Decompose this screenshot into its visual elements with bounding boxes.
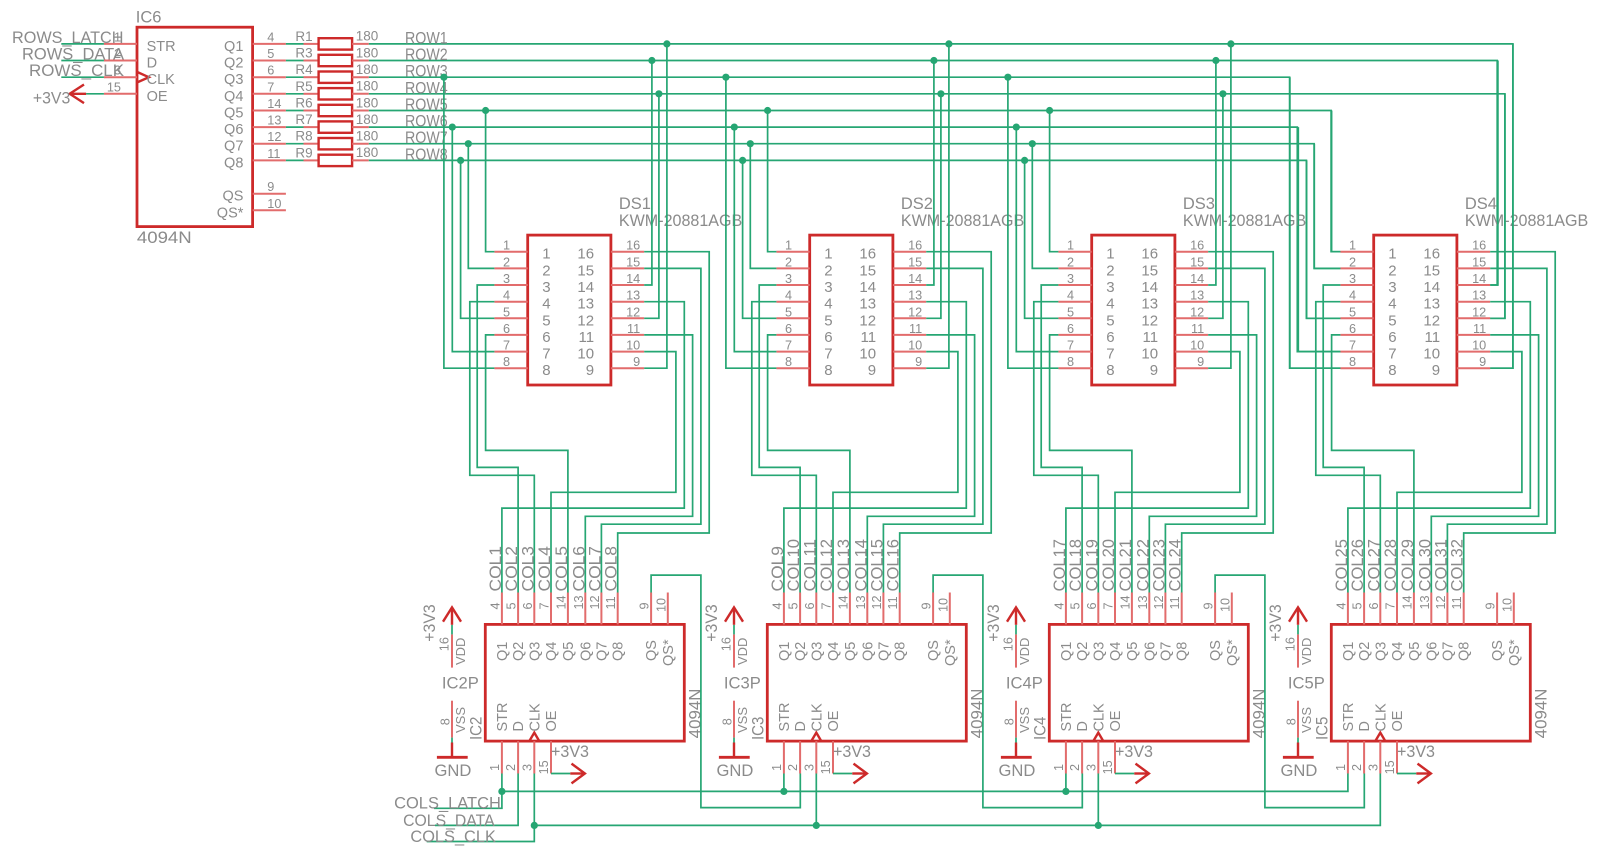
svg-text:8: 8 (1002, 718, 1016, 725)
svg-text:12: 12 (1434, 595, 1448, 609)
wire ROW8 to DS3 pin 5 (1021, 157, 1058, 319)
IC3 top pins Q1-Q8 QS QS* (770, 593, 950, 625)
svg-text:15: 15 (859, 262, 876, 279)
svg-text:+3V3: +3V3 (33, 90, 70, 108)
svg-text:14: 14 (267, 97, 281, 111)
svg-text:5: 5 (542, 312, 550, 329)
wire DS1 pin 15 to COL7 (601, 268, 701, 592)
wire ROW5 to DS2 pin 1 (764, 107, 776, 252)
IC3 bottom pins STR D CLK OE (1,2,3,15) (770, 741, 833, 774)
svg-text:13: 13 (859, 296, 876, 313)
svg-text:Q4: Q4 (826, 642, 842, 661)
svg-text:COL28: COL28 (1382, 539, 1400, 592)
svg-text:+3V3: +3V3 (1397, 743, 1435, 761)
svg-text:7: 7 (542, 346, 550, 363)
svg-text:7: 7 (1106, 346, 1114, 363)
svg-text:COL5: COL5 (553, 546, 571, 592)
svg-text:Q3: Q3 (1373, 642, 1389, 661)
IC5 bottom pins STR D CLK OE (1,2,3,15) (1334, 741, 1397, 774)
svg-text:OE: OE (1390, 710, 1406, 731)
svg-text:2: 2 (1388, 262, 1396, 279)
svg-text:180: 180 (356, 45, 379, 60)
svg-text:10: 10 (1423, 346, 1440, 363)
svg-text:IC2P: IC2P (442, 675, 479, 693)
wire IC4 QS to IC5 D (shift chain) (1215, 575, 1364, 808)
svg-text:VSS: VSS (1299, 707, 1314, 733)
svg-text:Q2: Q2 (1357, 642, 1373, 661)
svg-text:9: 9 (1484, 602, 1498, 609)
svg-text:Q6: Q6 (860, 642, 876, 661)
svg-text:KWM-20881AGB: KWM-20881AGB (1183, 212, 1306, 230)
svg-text:4: 4 (267, 30, 274, 44)
wire ROW1 to DS1 pin 9 (644, 40, 670, 368)
svg-text:5: 5 (267, 47, 274, 61)
svg-text:D: D (1075, 721, 1091, 731)
svg-text:16: 16 (1141, 246, 1158, 263)
svg-text:DS4: DS4 (1465, 195, 1497, 213)
svg-text:180: 180 (356, 112, 379, 127)
svg-text:8: 8 (1388, 362, 1396, 379)
svg-text:4: 4 (785, 289, 792, 303)
wire DS2 pin 3 to COL10 (759, 285, 800, 593)
svg-text:Q6: Q6 (224, 122, 243, 138)
svg-text:Q5: Q5 (843, 642, 859, 661)
svg-text:R7: R7 (295, 112, 312, 127)
svg-text:16: 16 (859, 246, 876, 263)
wire DS3 pin 16 to COL24 (1182, 252, 1274, 593)
svg-text:5: 5 (1388, 312, 1396, 329)
svg-text:2: 2 (504, 764, 518, 771)
svg-text:13: 13 (1423, 296, 1440, 313)
svg-text:COLS_LATCH: COLS_LATCH (394, 795, 501, 813)
svg-text:10: 10 (267, 197, 281, 211)
wire ROW2 to DS3 pin 14 (1208, 57, 1219, 285)
svg-text:9: 9 (920, 602, 934, 609)
svg-text:12: 12 (1472, 305, 1486, 319)
svg-text:13: 13 (267, 114, 281, 128)
svg-text:2: 2 (542, 262, 550, 279)
wire ROW4 to DS3 pin 12 (1208, 90, 1226, 318)
wire IC2 QS to IC3 D (shift chain) (651, 575, 800, 808)
svg-text:3: 3 (785, 272, 792, 286)
svg-text:14: 14 (908, 272, 922, 286)
svg-text:1: 1 (488, 764, 502, 771)
svg-text:13: 13 (577, 296, 594, 313)
svg-text:9: 9 (1432, 362, 1440, 379)
svg-text:10: 10 (1472, 339, 1486, 353)
svg-text:GND: GND (435, 762, 472, 780)
wire ROW7 to DS4 pin 2 (1314, 144, 1340, 269)
svg-text:CLK: CLK (1373, 703, 1389, 732)
svg-text:QS: QS (644, 640, 660, 661)
power +3V3 VDD pin 16 of IC2 (421, 604, 479, 692)
svg-text:10: 10 (1141, 346, 1158, 363)
svg-text:IC3: IC3 (749, 717, 767, 740)
svg-text:11: 11 (1168, 596, 1182, 609)
svg-text:12: 12 (870, 595, 884, 609)
svg-text:11: 11 (579, 329, 595, 346)
svg-text:16: 16 (577, 246, 594, 263)
svg-text:16: 16 (1423, 246, 1440, 263)
svg-text:VDD: VDD (735, 638, 750, 665)
svg-text:12: 12 (908, 305, 922, 319)
wire DS4 pin 11 to COL30 (1431, 335, 1538, 593)
svg-text:14: 14 (554, 595, 568, 609)
svg-text:COL24: COL24 (1167, 539, 1185, 592)
svg-text:Q8: Q8 (893, 642, 909, 661)
svg-text:Q6: Q6 (1424, 642, 1440, 661)
svg-text:+3V3: +3V3 (985, 604, 1003, 641)
svg-text:14: 14 (1472, 272, 1486, 286)
svg-text:3: 3 (1067, 272, 1074, 286)
svg-text:R8: R8 (295, 129, 312, 144)
wire ROW6 to DS2 pin 7 (731, 124, 777, 352)
svg-text:10: 10 (654, 598, 668, 612)
svg-text:VDD: VDD (1299, 638, 1314, 665)
svg-text:11: 11 (267, 147, 280, 161)
svg-text:2: 2 (1349, 255, 1356, 269)
resistor R1 180 (286, 29, 378, 50)
svg-text:GND: GND (717, 762, 754, 780)
svg-text:16: 16 (1472, 239, 1486, 253)
svg-text:13: 13 (854, 595, 868, 609)
svg-text:COL7: COL7 (586, 546, 604, 592)
svg-text:4094N: 4094N (687, 689, 705, 739)
svg-text:8: 8 (438, 718, 452, 725)
svg-text:Q6: Q6 (1142, 642, 1158, 661)
wire DS4 pin 15 to COL31 (1447, 268, 1547, 592)
wire ROW4 to DS1 pin 12 (644, 90, 662, 318)
wire net ROW8 (369, 146, 1341, 318)
svg-text:CLK: CLK (147, 72, 176, 88)
svg-text:12: 12 (577, 312, 594, 329)
svg-text:12: 12 (1423, 312, 1440, 329)
svg-text:VDD: VDD (1017, 638, 1032, 665)
svg-text:2: 2 (824, 262, 832, 279)
wire ROW8 to DS4 pin 5 (1307, 160, 1341, 318)
svg-text:8: 8 (1106, 362, 1114, 379)
svg-text:15: 15 (1190, 255, 1204, 269)
net labels COL1-COL8 (487, 546, 621, 592)
svg-text:7: 7 (538, 602, 552, 609)
svg-text:KWM-20881AGB: KWM-20881AGB (901, 212, 1024, 230)
svg-text:QS: QS (222, 189, 243, 205)
svg-text:CLK: CLK (1091, 703, 1107, 732)
wire ROW8 to DS1 pin 5 (457, 157, 494, 319)
svg-text:1: 1 (770, 764, 784, 771)
svg-text:Q8: Q8 (1175, 642, 1191, 661)
wire ROW7 to DS2 pin 2 (747, 140, 777, 268)
svg-text:3: 3 (1349, 272, 1356, 286)
svg-text:QS*: QS* (943, 639, 959, 666)
svg-text:14: 14 (1190, 272, 1204, 286)
svg-text:6: 6 (267, 64, 274, 78)
LED matrix display DS2 KWM-20881AGB (776, 195, 1024, 385)
svg-text:15: 15 (537, 760, 551, 774)
svg-text:4: 4 (1334, 602, 1348, 609)
svg-text:14: 14 (1400, 595, 1414, 609)
svg-text:9: 9 (868, 362, 876, 379)
svg-text:2: 2 (1067, 255, 1074, 269)
svg-text:11: 11 (1191, 322, 1204, 336)
svg-text:16: 16 (626, 239, 640, 253)
svg-text:7: 7 (820, 602, 834, 609)
svg-text:IC4: IC4 (1031, 717, 1049, 740)
svg-text:+3V3: +3V3 (833, 743, 871, 761)
svg-text:180: 180 (356, 95, 379, 110)
svg-text:180: 180 (356, 62, 379, 77)
svg-text:Q2: Q2 (511, 642, 527, 661)
svg-text:11: 11 (1425, 329, 1441, 346)
ground GND VSS pin 8 of IC2 (435, 701, 486, 780)
svg-text:9: 9 (1479, 355, 1486, 369)
svg-text:QS*: QS* (217, 205, 244, 221)
wire ROW6 to DS1 pin 7 (449, 124, 495, 352)
wire DS1 pin 16 to COL8 (618, 252, 710, 593)
svg-text:QS*: QS* (1507, 639, 1523, 666)
svg-text:COL32: COL32 (1449, 539, 1467, 592)
svg-text:11: 11 (604, 596, 618, 609)
svg-text:Q2: Q2 (224, 56, 243, 72)
svg-text:5: 5 (1351, 602, 1365, 609)
wire ROW1 to DS4 pin 9 (1490, 44, 1513, 368)
net label ROWS_CLK (29, 62, 124, 80)
svg-text:7: 7 (1388, 346, 1396, 363)
svg-text:2: 2 (1350, 764, 1364, 771)
wire DS3 pin 10 to COL20 (1115, 352, 1240, 593)
svg-text:4094N: 4094N (1533, 689, 1551, 739)
svg-text:8: 8 (503, 355, 510, 369)
svg-text:R3: R3 (295, 46, 312, 61)
svg-text:1: 1 (824, 246, 832, 263)
wire ROW3 to DS2 pin 8 (722, 74, 776, 369)
svg-text:2: 2 (1068, 764, 1082, 771)
wire ROW4 to DS4 pin 12 (1490, 94, 1505, 318)
svg-text:1: 1 (1334, 764, 1348, 771)
IC IC2 4094N column driver (485, 624, 704, 741)
LED matrix display DS4 KWM-20881AGB (1340, 195, 1588, 385)
svg-text:Q5: Q5 (1407, 642, 1423, 661)
wire ROW5 to DS3 pin 1 (1046, 107, 1058, 252)
svg-text:COL27: COL27 (1365, 539, 1383, 592)
wire ROW3 to DS4 pin 8 (1290, 77, 1341, 368)
svg-text:ROW6: ROW6 (405, 113, 448, 131)
svg-text:13: 13 (626, 289, 640, 303)
wire ROW3 to DS1 pin 8 (440, 74, 494, 369)
svg-text:15: 15 (626, 255, 640, 269)
svg-text:ROW8: ROW8 (405, 146, 448, 164)
svg-text:COL13: COL13 (835, 539, 853, 592)
IC4 top pins Q1-Q8 QS QS* (1052, 593, 1232, 625)
ground GND VSS pin 8 of IC4 (999, 701, 1050, 780)
svg-text:180: 180 (356, 145, 379, 160)
wire DS3 pin 11 to COL22 (1149, 335, 1256, 593)
power +3V3 on OE pin 15 of IC4 (1115, 743, 1153, 783)
wire ROW2 to DS2 pin 14 (926, 57, 937, 285)
wire DS2 pin 15 to COL15 (883, 268, 983, 592)
svg-text:IC2: IC2 (467, 717, 485, 740)
IC2 top pins Q1-Q8 QS QS* (488, 593, 668, 625)
svg-text:Q1: Q1 (1059, 642, 1075, 661)
svg-text:QS: QS (1490, 640, 1506, 661)
svg-text:3: 3 (542, 279, 550, 296)
svg-text:8: 8 (1067, 355, 1074, 369)
wire ROW5 to DS1 pin 1 (482, 107, 494, 252)
svg-text:R9: R9 (295, 145, 312, 160)
wire DS2 pin 16 to COL16 (900, 252, 992, 593)
svg-text:R1: R1 (295, 29, 312, 44)
svg-text:13: 13 (572, 595, 586, 609)
resistor R9 180 (286, 145, 378, 166)
svg-text:D: D (147, 56, 157, 72)
wire ROW3 to DS3 pin 8 (1004, 74, 1058, 369)
svg-text:6: 6 (1349, 322, 1356, 336)
power +3V3 VDD pin 16 of IC4 (985, 604, 1043, 692)
svg-text:OE: OE (544, 710, 560, 731)
svg-text:IC4P: IC4P (1006, 675, 1043, 693)
svg-text:8: 8 (824, 362, 832, 379)
wire DS3 pin 15 to COL23 (1165, 268, 1265, 592)
svg-text:VSS: VSS (735, 707, 750, 733)
svg-text:10: 10 (908, 339, 922, 353)
svg-text:11: 11 (1473, 322, 1486, 336)
net labels COL25-COL32 (1333, 539, 1467, 592)
wire ROW7 to DS1 pin 2 (465, 140, 495, 268)
wire ROW7 to DS3 pin 2 (1029, 140, 1059, 268)
svg-text:IC5P: IC5P (1288, 675, 1325, 693)
svg-text:13: 13 (1141, 296, 1158, 313)
svg-text:Q1: Q1 (224, 39, 243, 55)
LED matrix display DS1 KWM-20881AGB (494, 195, 742, 385)
svg-text:8: 8 (785, 355, 792, 369)
IC IC3 4094N column driver (767, 624, 986, 741)
svg-text:14: 14 (859, 279, 876, 296)
svg-text:COL15: COL15 (868, 539, 886, 592)
IC2 bottom pins STR D CLK OE (1,2,3,15) (488, 741, 551, 774)
svg-text:+3V3: +3V3 (1115, 743, 1153, 761)
svg-text:12: 12 (588, 595, 602, 609)
svg-text:DS3: DS3 (1183, 195, 1215, 213)
svg-text:16: 16 (720, 637, 734, 651)
wire DS3 pin 4 to COL19 (1034, 302, 1099, 593)
svg-text:13: 13 (1472, 289, 1486, 303)
wire net COLS_CLK (427, 774, 1381, 842)
svg-text:2: 2 (1106, 262, 1114, 279)
svg-text:15: 15 (1472, 255, 1486, 269)
wire net ROW6 (369, 113, 1341, 352)
svg-text:OE: OE (826, 710, 842, 731)
resistor R4 180 (286, 62, 378, 83)
net label ROWS_LATCH (12, 29, 124, 47)
svg-text:15: 15 (107, 80, 121, 94)
svg-text:7: 7 (1349, 339, 1356, 353)
svg-text:11: 11 (886, 596, 900, 609)
svg-text:1: 1 (1388, 246, 1396, 263)
svg-text:COL4: COL4 (536, 546, 554, 592)
svg-text:6: 6 (1106, 329, 1114, 346)
resistor R5 180 (286, 79, 378, 100)
svg-text:9: 9 (1150, 362, 1158, 379)
resistor R7 180 (286, 112, 378, 133)
svg-text:5: 5 (1067, 305, 1074, 319)
svg-text:Q7: Q7 (594, 642, 610, 661)
svg-text:COL11: COL11 (801, 539, 819, 592)
svg-text:4: 4 (488, 602, 502, 609)
svg-text:9: 9 (1202, 602, 1216, 609)
svg-text:7: 7 (1067, 339, 1074, 353)
svg-text:14: 14 (836, 595, 850, 609)
svg-text:10: 10 (1500, 598, 1514, 612)
svg-text:15: 15 (1423, 262, 1440, 279)
svg-text:ROW7: ROW7 (405, 129, 448, 147)
wire DS1 pin 13 to COL1 (502, 302, 684, 593)
svg-text:7: 7 (785, 339, 792, 353)
svg-text:COL23: COL23 (1150, 539, 1168, 592)
wire DS4 pin 3 to COL26 (1323, 285, 1364, 593)
svg-text:12: 12 (626, 305, 640, 319)
wire DS1 pin 3 to COL2 (477, 285, 518, 593)
LED matrix display DS3 KWM-20881AGB (1058, 195, 1306, 385)
svg-text:6: 6 (803, 602, 817, 609)
svg-text:QS: QS (1208, 640, 1224, 661)
svg-text:Q3: Q3 (809, 642, 825, 661)
svg-text:COL8: COL8 (603, 546, 621, 592)
svg-text:+3V3: +3V3 (703, 604, 721, 641)
svg-text:11: 11 (909, 322, 922, 336)
svg-text:VSS: VSS (1017, 707, 1032, 733)
svg-text:ROW2: ROW2 (405, 46, 448, 64)
svg-text:7: 7 (1384, 602, 1398, 609)
wire ROW8 to DS2 pin 5 (739, 157, 776, 319)
svg-text:180: 180 (356, 79, 379, 94)
svg-text:QS*: QS* (661, 639, 677, 666)
wire net ROW7 (369, 129, 1341, 268)
svg-text:STR: STR (147, 39, 176, 55)
svg-text:1: 1 (542, 246, 550, 263)
power +3V3 supply on IC6 OE (33, 85, 104, 108)
svg-text:Q1: Q1 (1341, 642, 1357, 661)
net label COLS_CLK (410, 828, 496, 846)
svg-text:4094N: 4094N (1251, 689, 1269, 739)
svg-text:VDD: VDD (453, 638, 468, 665)
svg-text:2: 2 (503, 255, 510, 269)
svg-text:14: 14 (1423, 279, 1440, 296)
svg-text:3: 3 (1106, 279, 1114, 296)
svg-text:10: 10 (936, 598, 950, 612)
svg-text:9: 9 (1197, 355, 1204, 369)
svg-text:STR: STR (495, 703, 511, 732)
svg-text:1: 1 (1106, 246, 1114, 263)
svg-text:VSS: VSS (453, 707, 468, 733)
svg-text:IC3P: IC3P (724, 675, 761, 693)
wire net ROW2 (369, 46, 1497, 285)
wire DS2 pin 4 to COL11 (752, 302, 817, 593)
svg-text:COL12: COL12 (818, 539, 836, 592)
svg-text:10: 10 (626, 339, 640, 353)
net label COLS_DATA (403, 812, 495, 830)
svg-text:8: 8 (542, 362, 550, 379)
svg-text:COL20: COL20 (1100, 539, 1118, 592)
svg-text:13: 13 (1136, 595, 1150, 609)
svg-text:+3V3: +3V3 (551, 743, 589, 761)
svg-text:Q2: Q2 (1075, 642, 1091, 661)
svg-text:10: 10 (859, 346, 876, 363)
svg-text:Q4: Q4 (1108, 642, 1124, 661)
svg-text:OE: OE (1108, 710, 1124, 731)
svg-text:14: 14 (577, 279, 594, 296)
svg-text:3: 3 (1388, 279, 1396, 296)
wire net COLS_LATCH (434, 774, 1348, 809)
